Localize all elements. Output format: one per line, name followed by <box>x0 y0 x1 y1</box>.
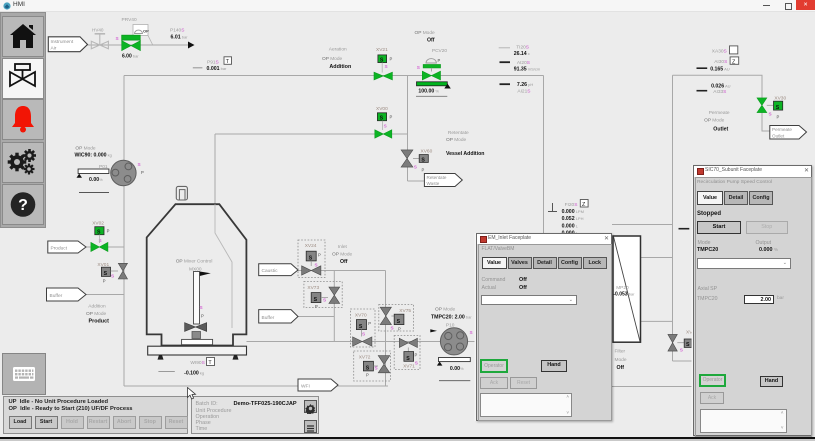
svg-text:OP Mode: OP Mode <box>332 251 353 257</box>
svg-text:P: P <box>107 229 110 234</box>
wire: buffer2 stub <box>297 316 334 318</box>
svg-text:OP Mode: OP Mode <box>435 307 456 313</box>
node AI30S UV <box>697 57 739 73</box>
svg-text:0.001 bar: 0.001 bar <box>207 66 228 72</box>
svg-text:Buffer: Buffer <box>262 315 275 321</box>
svg-text:0.000 L: 0.000 L <box>562 223 579 229</box>
svg-text:S: S <box>421 157 425 163</box>
node: aeration mode text <box>322 47 351 71</box>
node: caustic label <box>259 264 298 276</box>
node: filter mode text <box>615 349 627 372</box>
svg-text:Retentate: Retentate <box>448 130 469 136</box>
svg-text:AI21S: AI21S <box>517 88 530 94</box>
node AI20S conductivity <box>500 60 541 72</box>
svg-text:XV30: XV30 <box>774 96 786 102</box>
node P91S vessel pressure <box>193 57 232 72</box>
valve XV71 (grey) <box>394 336 420 370</box>
wire: XV00 vessel-addition branch <box>407 76 409 182</box>
wire: permeate top run <box>673 75 771 131</box>
svg-text:S: S <box>391 326 394 331</box>
filter F20 housing <box>613 236 641 342</box>
svg-text:Addition: Addition <box>329 64 351 70</box>
svg-text:Off: Off <box>617 365 625 371</box>
svg-text:OP Mode: OP Mode <box>415 30 436 36</box>
wire: loop bottom left <box>124 385 388 387</box>
svg-text:PRV40: PRV40 <box>122 17 137 23</box>
svg-text:P: P <box>390 57 393 62</box>
wire: filter permeate connections <box>641 257 673 259</box>
svg-text:S: S <box>384 124 387 129</box>
node FI20S flow readouts <box>548 200 588 237</box>
svg-text:6.01 bar: 6.01 bar <box>171 35 189 41</box>
svg-text:Product: Product <box>51 245 68 251</box>
svg-text:XA30S: XA30S <box>712 49 727 55</box>
svg-text:S: S <box>99 238 102 243</box>
wire: retentate waste stub <box>408 180 427 182</box>
svg-text:P: P <box>103 279 106 284</box>
svg-text:WFI: WFI <box>301 383 310 389</box>
svg-text:XV02: XV02 <box>92 221 104 227</box>
valve XV02 (green, product) <box>91 221 110 252</box>
wire: instrument air header <box>86 44 189 46</box>
wire: retentate crossover <box>612 224 673 226</box>
valve PCV20 (green control valve + position bar) <box>415 30 451 96</box>
svg-text:P: P <box>366 373 369 378</box>
node: addition mode text <box>86 304 109 325</box>
svg-text:S: S <box>385 64 388 69</box>
valve XV32 (grey, filter drain) <box>668 330 693 353</box>
svg-text:OP Mode: OP Mode <box>704 118 725 124</box>
wire: loop bottom right <box>612 386 694 388</box>
svg-text:S: S <box>397 319 401 325</box>
svg-text:S: S <box>111 274 114 279</box>
mouse cursor <box>186 387 198 401</box>
svg-text:S: S <box>375 366 378 371</box>
svg-text:Permeate: Permeate <box>709 110 730 116</box>
svg-text:100.00 %: 100.00 % <box>418 89 439 95</box>
valve XV73 (grey) <box>304 282 342 310</box>
svg-text:0.000 LPM: 0.000 LPM <box>562 209 584 215</box>
svg-text:OP Mode: OP Mode <box>75 146 96 152</box>
svg-text:P: P <box>390 115 393 120</box>
wire: XV73 drop <box>333 271 335 342</box>
svg-text:S: S <box>138 162 141 167</box>
wire: main loop top header <box>124 75 544 77</box>
agitator MX00 <box>176 259 213 345</box>
svg-text:TI20S: TI20S <box>516 45 529 51</box>
svg-text:Outlet: Outlet <box>713 127 728 133</box>
node: retentate waste label <box>424 174 462 187</box>
svg-text:XV71: XV71 <box>403 363 415 369</box>
node: dp dash <box>679 228 690 230</box>
svg-text:WI90S: WI90S <box>190 360 204 366</box>
sidebar button: help <box>2 184 44 225</box>
valve XV70 (grey, vessel outlet) <box>351 309 376 347</box>
svg-text:MP20: MP20 <box>616 285 629 291</box>
svg-text:AI33S: AI33S <box>713 89 726 95</box>
svg-text:Product: Product <box>89 319 110 325</box>
svg-text:91.35 mS/cm: 91.35 mS/cm <box>514 67 541 73</box>
node: WIC90 weight controller readout <box>75 146 112 159</box>
node: retentate mode text <box>446 130 484 157</box>
svg-text:S: S <box>470 330 473 335</box>
svg-text:Mode: Mode <box>615 357 627 363</box>
pump P01 with speed bar <box>77 160 145 192</box>
svg-text:Vessel Addition: Vessel Addition <box>446 151 484 157</box>
valve XV00 (green, vessel addition) <box>375 106 393 138</box>
svg-text:0.026 AU: 0.026 AU <box>711 83 731 89</box>
sidebar button: home <box>2 16 44 57</box>
svg-text:-0.100 kg: -0.100 kg <box>184 370 204 376</box>
svg-text:S: S <box>362 332 365 337</box>
svg-text:S: S <box>769 112 772 117</box>
node: product label <box>48 241 86 253</box>
sidebar keyboard button <box>2 353 46 395</box>
svg-text:OP Mixer Control: OP Mixer Control <box>176 259 213 265</box>
wire: tank outlet to pump P10 <box>247 341 477 343</box>
wire: dip tube inside vessel <box>215 204 232 328</box>
svg-text:P: P <box>141 170 144 175</box>
svg-text:P: P <box>368 321 371 326</box>
svg-text:AI20S: AI20S <box>517 60 530 66</box>
svg-text:S: S <box>200 305 203 310</box>
svg-text:0.052 LPH: 0.052 LPH <box>562 216 584 222</box>
svg-text:S: S <box>323 298 326 303</box>
svg-text:Aeration: Aeration <box>329 47 347 53</box>
svg-text:P: P <box>318 253 321 258</box>
wire: product inlet <box>86 246 124 248</box>
svg-text:7.26 pH: 7.26 pH <box>517 82 533 88</box>
svg-text:XV60: XV60 <box>421 149 433 155</box>
node AI21S pH <box>500 82 534 94</box>
svg-text:S: S <box>309 256 313 262</box>
svg-text:S: S <box>417 65 420 70</box>
svg-text:OP Mode: OP Mode <box>322 56 343 62</box>
valve XV24 (grey, caustic inlet) <box>298 240 325 278</box>
node: TMPC20 mode text <box>431 307 472 321</box>
svg-text:P: P <box>315 304 318 309</box>
node P140S pressure indicator <box>170 28 195 49</box>
svg-text:TMPC20: 2.00 bar: TMPC20: 2.00 bar <box>431 314 472 320</box>
svg-text:6.00 bar: 6.00 bar <box>122 54 139 60</box>
svg-text:S: S <box>680 348 683 353</box>
wire: buffer inlet <box>86 294 124 296</box>
svg-text:26.14 c: 26.14 c <box>514 51 530 57</box>
svg-text:S: S <box>686 342 690 348</box>
svg-text:Waste: Waste <box>427 181 440 186</box>
sidebar button: alarm bell <box>2 99 44 140</box>
svg-text:WIC90: 0.000 kg: WIC90: 0.000 kg <box>75 153 112 159</box>
node XA30S alarm <box>712 46 738 55</box>
svg-text:XV72: XV72 <box>359 355 371 361</box>
svg-text:0.00%: 0.00% <box>450 366 464 372</box>
svg-text:FI20S: FI20S <box>565 202 578 208</box>
svg-text:Addition: Addition <box>88 304 106 310</box>
node: inlet mode text <box>332 244 353 265</box>
sidebar button: valve (selected) <box>2 58 44 99</box>
svg-text:P91S: P91S <box>207 60 219 66</box>
svg-text:P: P <box>422 168 425 173</box>
valve PRV40 (pressure regulator, open/green) <box>116 17 153 60</box>
svg-text:HV40: HV40 <box>92 28 104 33</box>
valve XV01 (grey, buffer on riser) <box>97 262 127 284</box>
pump P10 with speed bar <box>430 323 472 381</box>
node: permeate mode text <box>704 110 730 133</box>
svg-text:OP Mode: OP Mode <box>86 311 107 317</box>
node: permeate outlet label <box>770 126 807 140</box>
svg-text:0.165 AU: 0.165 AU <box>710 67 730 73</box>
svg-text:Buffer: Buffer <box>50 293 63 299</box>
sidebar button: settings gears <box>2 142 44 183</box>
wire: caustic inlet to XV24 <box>297 270 386 272</box>
svg-text:S: S <box>104 271 108 277</box>
svg-text:Permeate: Permeate <box>772 127 792 132</box>
svg-text:P: P <box>201 314 204 319</box>
svg-text:P: P <box>398 327 401 332</box>
svg-text:XV21: XV21 <box>376 47 388 53</box>
svg-text:P: P <box>777 115 780 120</box>
svg-text:XV73: XV73 <box>307 285 319 291</box>
svg-text:S: S <box>415 361 418 366</box>
svg-text:XV75: XV75 <box>399 308 411 314</box>
svg-text:S: S <box>414 165 417 170</box>
valve XV30 (green, permeate outlet) <box>757 96 786 120</box>
svg-text:P: P <box>415 353 418 358</box>
vessel T00 (main tank) <box>147 186 247 359</box>
svg-text:OP: OP <box>143 29 149 34</box>
node: WFI label <box>298 379 338 391</box>
svg-text:XV70: XV70 <box>355 313 367 319</box>
svg-text:Outlet: Outlet <box>772 133 785 138</box>
svg-text:Caustic: Caustic <box>262 268 279 274</box>
svg-text:Instrument: Instrument <box>51 39 74 45</box>
svg-text:Off: Off <box>340 259 348 265</box>
svg-text:S: S <box>366 366 370 372</box>
svg-text:Air: Air <box>51 46 57 52</box>
wire: loop left riser <box>123 76 125 387</box>
svg-text:AI30S: AI30S <box>714 59 727 65</box>
svg-text:S: S <box>315 263 318 268</box>
valve XV72 (grey) <box>354 351 391 381</box>
vessel base plate <box>148 346 247 355</box>
svg-text:P: P <box>438 58 441 63</box>
svg-text:XV24: XV24 <box>305 243 317 249</box>
node AI33S UV <box>697 83 731 95</box>
wire: XV75/XV72 drop <box>385 271 387 387</box>
svg-text:XV00: XV00 <box>376 106 388 112</box>
node: buffer2 label <box>259 310 298 323</box>
svg-text:S: S <box>314 297 318 303</box>
svg-text:PCV20: PCV20 <box>432 48 448 54</box>
svg-text:0.00%: 0.00% <box>89 177 103 183</box>
node TI20S temperature <box>499 45 530 58</box>
valve HV40 (manual, hand wheel) <box>91 34 108 49</box>
svg-text:Retentate: Retentate <box>427 175 447 180</box>
node WI90S weight <box>158 358 214 377</box>
svg-text:S: S <box>776 105 780 111</box>
wire: loop right drop to filter <box>543 76 545 243</box>
svg-text:Off: Off <box>427 38 435 44</box>
valve XV60 (grey, on riser) <box>401 149 432 173</box>
svg-text:S: S <box>359 324 363 330</box>
svg-text:S: S <box>406 356 410 362</box>
svg-text:Filter: Filter <box>615 349 626 355</box>
svg-text:S: S <box>116 36 119 41</box>
node: buffer label <box>47 288 87 301</box>
svg-text:OP Mode: OP Mode <box>446 137 467 143</box>
svg-text:P140S: P140S <box>170 28 184 34</box>
wire: permeate riser <box>672 75 674 361</box>
valve XV21 (green, on top header) <box>374 47 393 80</box>
valve XV75 (grey) <box>379 305 414 332</box>
node: instrument air source label <box>48 37 87 52</box>
svg-text:Inlet: Inlet <box>338 244 348 250</box>
